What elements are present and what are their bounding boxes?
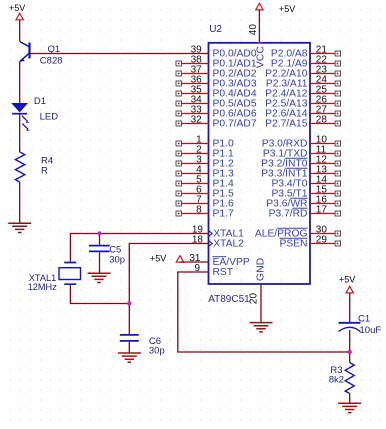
pin 6 stub xyxy=(176,191,209,196)
svg-text:RST: RST xyxy=(213,267,234,278)
U2 pin number 29 (PSEN) xyxy=(316,235,328,246)
pin 35 stub xyxy=(176,91,209,96)
U2 pin XTAL1 name and clock chevron xyxy=(209,229,245,240)
power +5V above Q1 xyxy=(16,13,23,20)
U2 port P3 pin names xyxy=(261,139,308,220)
power +5V at VCC pin 40 xyxy=(256,3,263,10)
U2 pin ALE/PROG name (PROG overlined) xyxy=(255,228,308,240)
svg-text:30p: 30p xyxy=(109,254,125,265)
wire LED D1 cathode to R4 xyxy=(19,115,21,153)
svg-text:PSEN: PSEN xyxy=(279,239,307,250)
U2 pin numbers 21..28 (P2) xyxy=(316,45,328,126)
pin 37 stub xyxy=(176,71,209,76)
resistor R4 xyxy=(15,152,24,182)
U2 pin number 18 (XTAL2) xyxy=(192,235,204,246)
U2 pin numbers 10..17 (P3) xyxy=(316,135,328,216)
svg-text:P2.7/A15: P2.7/A15 xyxy=(265,119,308,130)
wire C6 bottom to ground xyxy=(128,342,130,353)
wire Q1 emitter to LED D1 anode xyxy=(19,62,21,104)
pin 22 stub xyxy=(310,61,341,66)
wire C5 top to XTAL1 net junction xyxy=(99,234,101,246)
pin 33 stub xyxy=(176,111,209,116)
pin 3 stub xyxy=(176,161,209,166)
svg-text:GND: GND xyxy=(255,257,267,281)
power +5V at EA/VPP xyxy=(176,256,183,263)
pin 30 stub xyxy=(310,231,341,236)
pin 24 stub xyxy=(310,81,341,86)
label C6 xyxy=(149,336,161,347)
label +5V (Q1) xyxy=(9,3,25,13)
U2 pin numbers 1..8 (P1) xyxy=(196,135,202,216)
U2 pin EA/VPP name (EA overlined) xyxy=(213,257,250,269)
wire C5 bottom to ground xyxy=(99,252,101,272)
power +5V above C1 xyxy=(346,286,353,293)
U2 port P0 pin names xyxy=(213,49,257,130)
capacitor C6 xyxy=(120,335,139,341)
pin 32 stub xyxy=(176,121,209,126)
wire XTAL1 net: crystal top to U2 pin 19 xyxy=(70,234,208,263)
pin 13 stub xyxy=(310,171,341,176)
svg-text:D1: D1 xyxy=(34,96,46,107)
ground below R4 xyxy=(8,223,31,232)
wire XTAL2 junction down to C6 xyxy=(128,304,130,335)
svg-text:C1: C1 xyxy=(358,314,370,325)
pin 26 stub xyxy=(310,101,341,106)
label Q1 xyxy=(48,44,61,55)
value C828 xyxy=(40,55,63,66)
LED D1 xyxy=(12,103,30,131)
transistor Q1 xyxy=(20,42,30,62)
svg-text:+5V: +5V xyxy=(9,3,25,13)
svg-text:30p: 30p xyxy=(149,345,165,356)
pin 4 stub xyxy=(176,171,209,176)
pin 17 stub xyxy=(310,211,341,216)
pin 38 stub xyxy=(176,61,209,66)
svg-text:40: 40 xyxy=(248,24,259,36)
pin 16 stub xyxy=(310,201,341,206)
svg-text:LED: LED xyxy=(40,112,59,123)
value 12MHz xyxy=(28,282,58,292)
svg-text:+5V: +5V xyxy=(339,275,355,285)
svg-text:10uF: 10uF xyxy=(360,325,382,336)
U2 port P2 pin names xyxy=(265,49,308,130)
wire XTAL2 net: U2 pin 18 down to bottom junction xyxy=(129,244,208,304)
label AT89C51 xyxy=(208,294,250,305)
svg-text:AT89C51: AT89C51 xyxy=(208,294,250,305)
wire U2 GND pin 20 to ground xyxy=(260,284,262,322)
pin 34 stub xyxy=(176,101,209,106)
label C1 xyxy=(358,314,370,325)
pin 10 stub xyxy=(310,141,341,146)
U2 port P1 pin names xyxy=(213,139,234,220)
U2 pin number 40 (VCC, rotated) xyxy=(248,24,259,36)
pin 21 stub xyxy=(310,51,341,56)
wire Q1 base to U2 pin 39 xyxy=(31,53,209,55)
value 30p (C6) xyxy=(149,345,165,356)
label R3 xyxy=(330,365,342,376)
junction RST net / C1 / R3 xyxy=(348,350,352,354)
U2 pin number 31 (EA/VPP) xyxy=(189,253,201,264)
U2 pin RST name xyxy=(213,267,234,278)
value 30p (C5) xyxy=(109,254,125,265)
svg-text:+5V: +5V xyxy=(279,4,295,14)
wire crystal bottom to XTAL2 net junction xyxy=(70,284,129,303)
pin 7 stub xyxy=(176,201,209,206)
svg-text:12MHz: 12MHz xyxy=(28,282,58,292)
U2 pin GND name (rotated) xyxy=(255,257,267,281)
ground below C5 xyxy=(88,273,111,282)
wire RST net: U2 pin 9 to R3/C1 junction xyxy=(178,272,350,352)
ground at U2 GND pin 20 xyxy=(250,323,273,332)
label +5V (EA/VPP) xyxy=(150,254,166,264)
svg-text:XTAL2: XTAL2 xyxy=(213,239,244,250)
resistor R3 xyxy=(345,363,354,394)
U2 pin numbers 39..32 (P0) xyxy=(191,45,203,126)
pin 14 stub xyxy=(310,181,341,186)
value 8k2 xyxy=(329,375,344,386)
U2 pin PSEN name (overlined) xyxy=(279,238,307,250)
label XTAL1 xyxy=(29,273,56,283)
svg-text:C828: C828 xyxy=(40,55,63,66)
wire R3 to ground xyxy=(349,394,351,404)
svg-text:20: 20 xyxy=(249,293,260,305)
svg-text:8k2: 8k2 xyxy=(329,375,344,386)
capacitor C5 xyxy=(89,246,110,252)
junction XTAL2 net / C6 / crystal xyxy=(127,301,131,305)
svg-text:P0.7/AD7: P0.7/AD7 xyxy=(213,119,257,130)
U2 pin number 19 (XTAL1) xyxy=(192,225,204,236)
value LED xyxy=(40,112,59,123)
label +5V (C1) xyxy=(339,275,355,285)
svg-text:+5V: +5V xyxy=(150,254,166,264)
IC U2 AT89C51 body xyxy=(209,43,311,284)
svg-text:U2: U2 xyxy=(209,24,222,35)
wire +5V to U2 EA/VPP pin 31 xyxy=(180,261,209,263)
wire +5V to Q1 collector xyxy=(19,20,21,42)
svg-text:P1.7: P1.7 xyxy=(213,209,234,220)
wire +5V to U2 VCC pin 40 xyxy=(258,10,260,42)
label C5 xyxy=(109,245,121,256)
pin 27 stub xyxy=(310,111,341,116)
wire R4 to ground xyxy=(19,182,21,223)
pin 11 stub xyxy=(310,151,341,156)
junction XTAL1 net / C5 xyxy=(97,231,101,235)
pin 28 stub xyxy=(310,121,341,126)
wire +5V to C1 top xyxy=(349,294,351,323)
value R xyxy=(41,165,48,176)
U2 pin number 30 (ALE/PROG) xyxy=(316,225,328,236)
label D1 xyxy=(34,96,46,107)
label R4 xyxy=(41,155,53,166)
U2 pin XTAL2 name and clock chevron xyxy=(209,239,245,250)
pin 5 stub xyxy=(176,181,209,186)
pin 15 stub xyxy=(310,191,341,196)
svg-text:R: R xyxy=(41,165,48,176)
pin 36 stub xyxy=(176,81,209,86)
value 10uF xyxy=(360,325,382,336)
svg-text:P3.7/RD: P3.7/RD xyxy=(269,209,308,220)
ground below C6 xyxy=(118,353,141,362)
label +5V (VCC) xyxy=(279,4,295,14)
pin 23 stub xyxy=(310,71,341,76)
pin 25 stub xyxy=(310,91,341,96)
svg-text:VCC: VCC xyxy=(255,46,267,69)
U2 pin number 20 (GND, rotated) xyxy=(249,293,260,305)
capacitor C1 (polarized) xyxy=(339,323,361,332)
crystal XTAL1 12MHz xyxy=(59,263,81,285)
pin 29 stub xyxy=(310,241,341,246)
U2 pin number 9 (RST) xyxy=(194,263,200,274)
U2 origin marker xyxy=(258,42,260,44)
label U2 xyxy=(209,24,222,35)
pin 1 stub xyxy=(176,141,209,146)
ground below R3 xyxy=(338,403,361,412)
wire C1 bottom to RST junction and R3 xyxy=(349,330,351,363)
pin 2 stub xyxy=(176,151,209,156)
U2 pin VCC name (rotated) xyxy=(255,46,267,69)
pin 12 stub xyxy=(310,161,341,166)
svg-text:Q1: Q1 xyxy=(48,44,61,55)
pin 8 stub xyxy=(176,211,209,216)
